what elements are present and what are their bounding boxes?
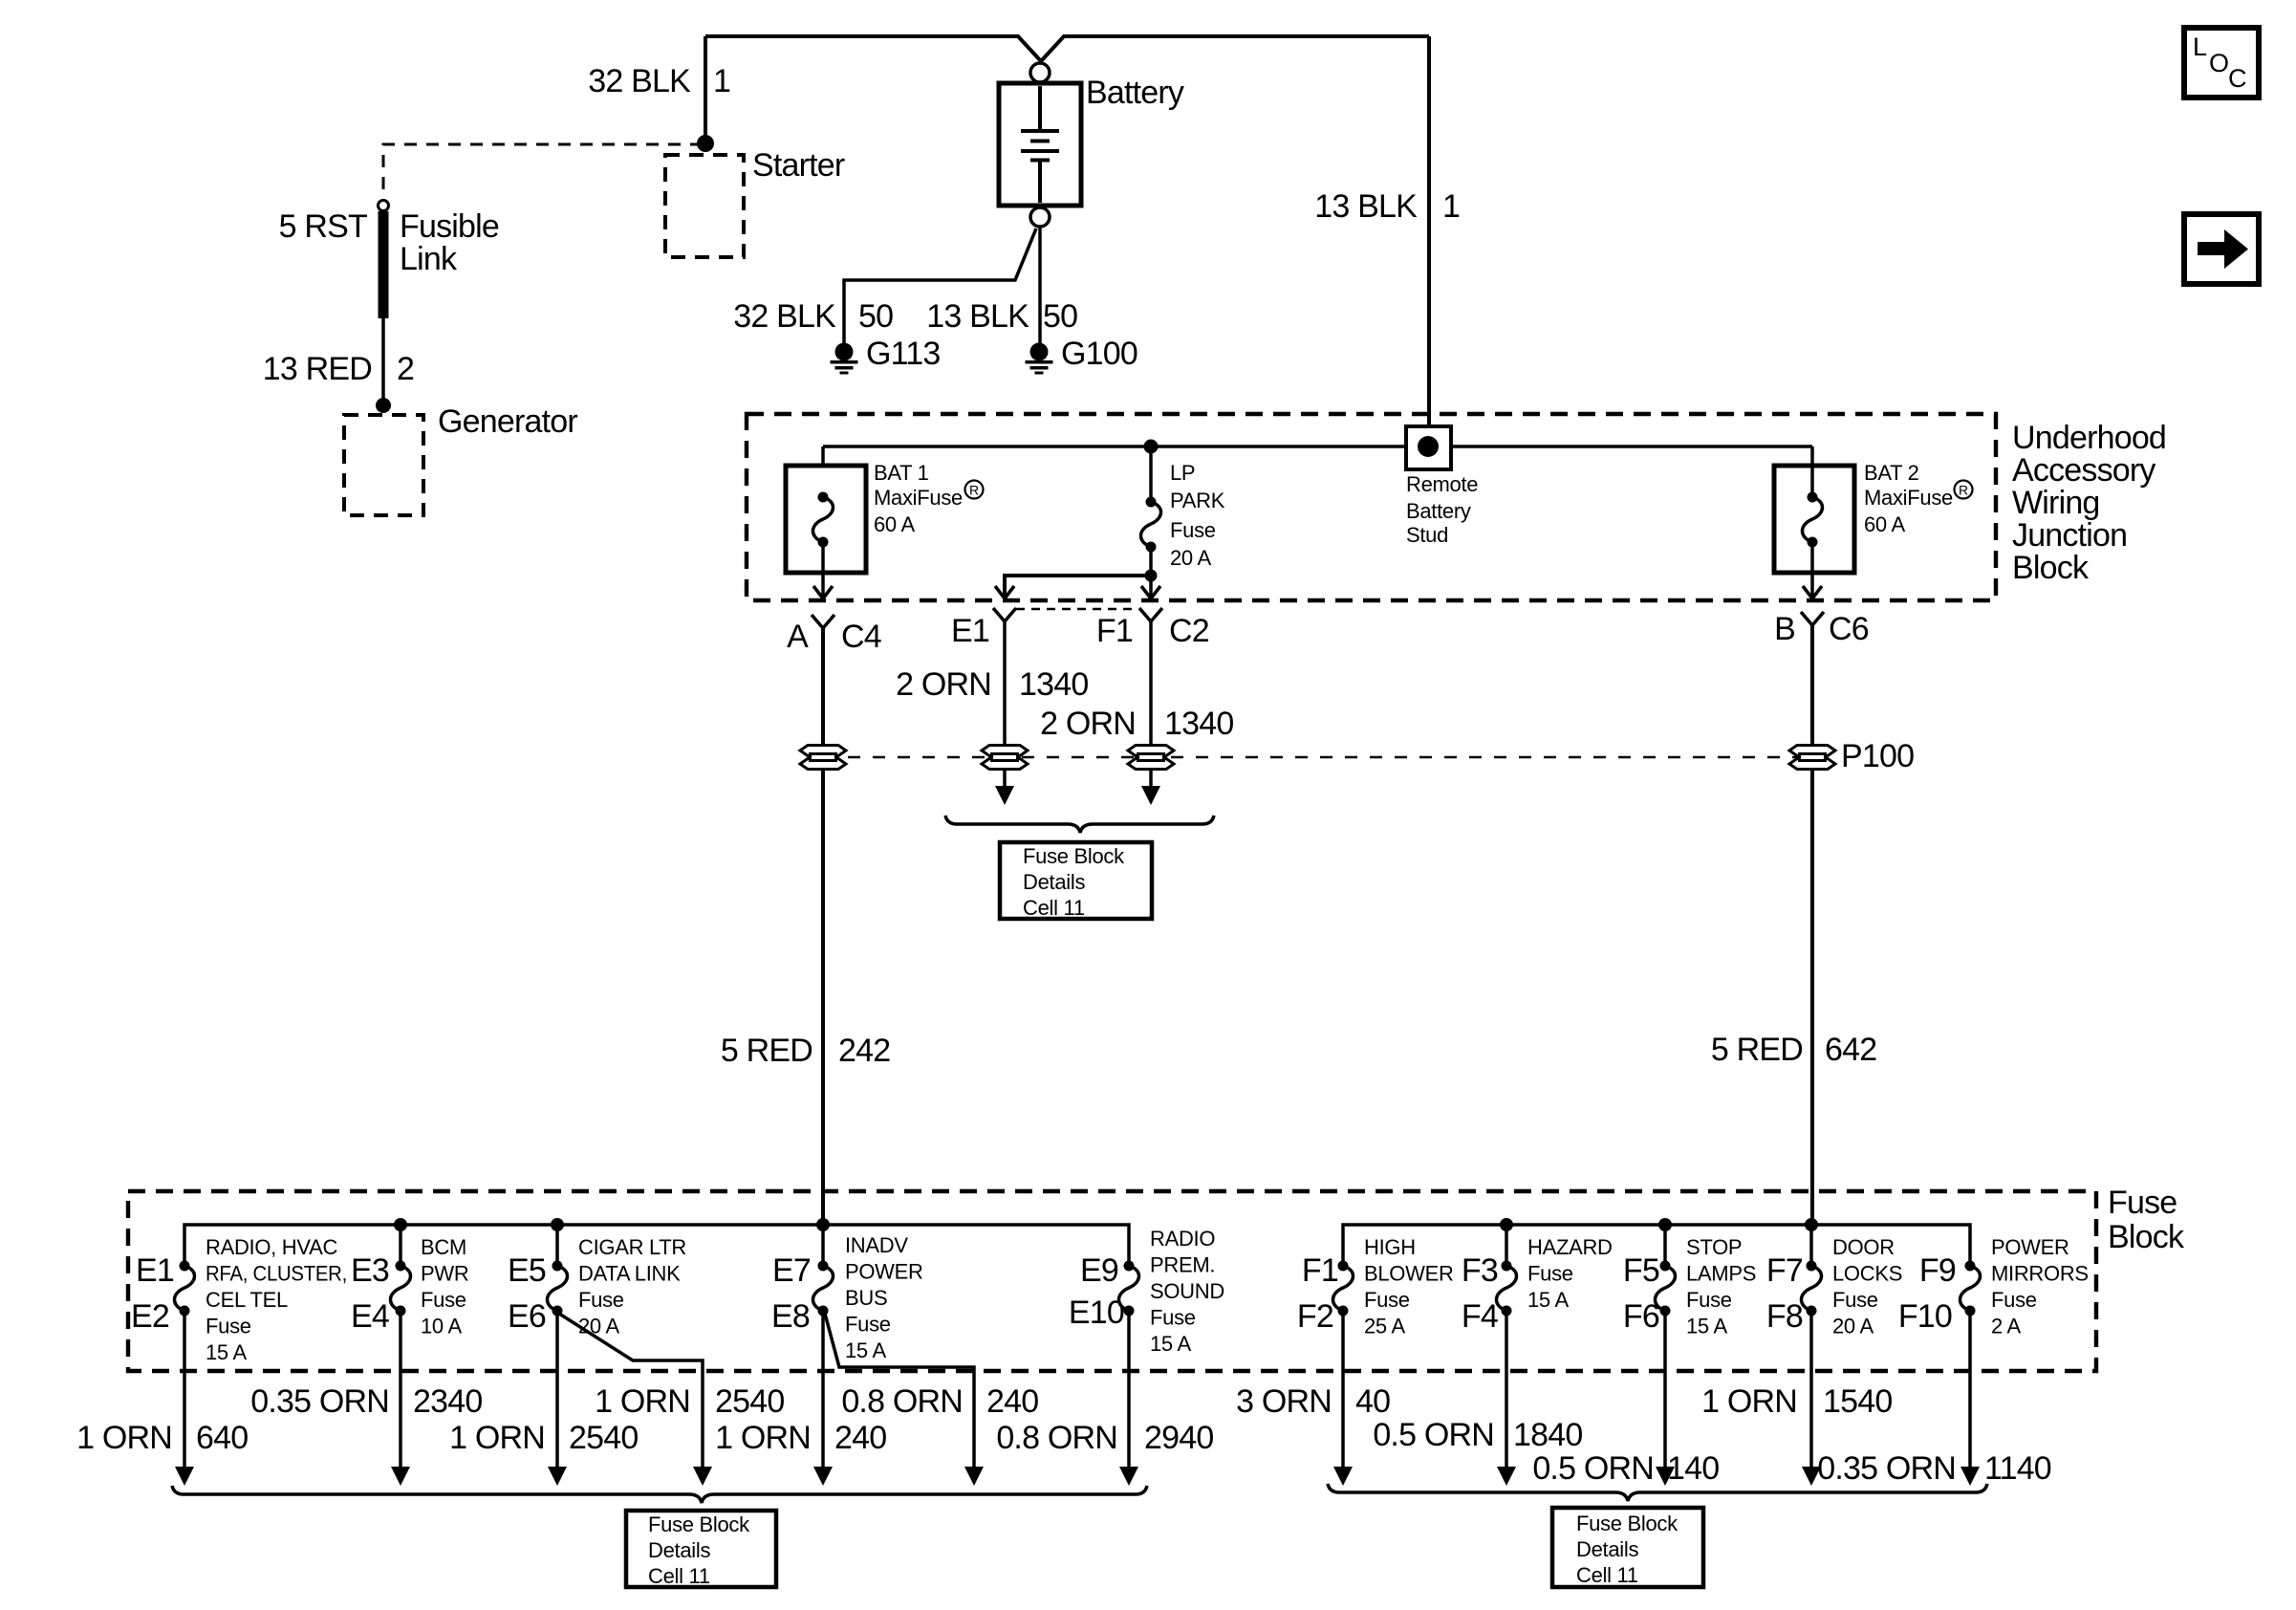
svg-text:Wiring: Wiring — [2012, 485, 2100, 521]
label E1 — [951, 613, 989, 649]
arrow E2 circuit — [175, 1467, 194, 1486]
battery negative terminal — [1030, 207, 1050, 227]
svg-text:Fuse: Fuse — [1832, 1288, 1878, 1312]
svg-text:40: 40 — [1355, 1383, 1390, 1420]
connector E1 — [993, 608, 1016, 621]
svg-text:L: L — [2193, 33, 2207, 61]
fuse E7 E8 INADV element — [821, 1225, 825, 1263]
fuse E3 E4 BCM PWR element — [399, 1225, 402, 1263]
arrow E4 circuit — [391, 1467, 410, 1486]
arrow BAT1 to connector A — [813, 586, 833, 598]
svg-text:140: 140 — [1667, 1450, 1719, 1487]
label LOC — [2193, 33, 2247, 93]
wire E6 output 1 ORN 2540 — [555, 1316, 559, 1468]
svg-text:CEL TEL: CEL TEL — [206, 1288, 288, 1312]
svg-text:Remote: Remote — [1406, 472, 1478, 496]
svg-text:Fuse Block: Fuse Block — [1576, 1512, 1679, 1535]
node remote battery stud dot — [1418, 436, 1439, 457]
arrow branch to E1 connector — [995, 586, 1014, 598]
svg-text:INADV: INADV — [845, 1233, 908, 1257]
wire 5 RED 242 feed — [821, 628, 825, 1225]
wire BAT1 feed stub — [821, 446, 825, 494]
svg-text:15 A: 15 A — [845, 1338, 886, 1362]
svg-text:15 A: 15 A — [1527, 1288, 1569, 1312]
label RADIO HVAC RFA CLUSTER CEL TEL Fuse 15 A — [206, 1235, 347, 1364]
label F3 — [1462, 1252, 1498, 1289]
svg-text:E1: E1 — [951, 613, 989, 649]
svg-text:2340: 2340 — [413, 1383, 482, 1420]
label E2 — [131, 1298, 169, 1335]
callout box Fuse Block Details Cell 11 left — [626, 1511, 776, 1587]
label F1 C2 — [1096, 613, 1209, 649]
svg-text:50: 50 — [858, 298, 893, 335]
label 3 ORN 40 — [1236, 1383, 1390, 1420]
svg-text:Starter: Starter — [752, 147, 845, 184]
svg-text:BAT 2: BAT 2 — [1864, 461, 1919, 485]
svg-text:F1: F1 — [1302, 1252, 1338, 1289]
fuse F3 F4 HAZARD element — [1505, 1225, 1508, 1263]
label 1 ORN 2540 lower — [449, 1420, 638, 1456]
svg-text:Details: Details — [648, 1538, 710, 1562]
wire BAT2 feed stub — [1810, 446, 1814, 494]
wire F6 output 0.5 ORN 140 — [1663, 1316, 1667, 1468]
label Generator — [438, 403, 577, 440]
svg-text:E7: E7 — [772, 1252, 811, 1289]
arrow F10 circuit — [1960, 1467, 1980, 1486]
svg-text:1 ORN: 1 ORN — [1701, 1383, 1797, 1420]
label F10 — [1898, 1298, 1952, 1335]
svg-text:Link: Link — [400, 241, 458, 277]
svg-text:E6: E6 — [508, 1298, 546, 1335]
label F2 — [1297, 1298, 1333, 1335]
connector P100 pass-through B — [1789, 746, 1835, 770]
fuse block dashed box — [128, 1191, 2096, 1371]
svg-text:1 ORN: 1 ORN — [76, 1420, 172, 1456]
svg-text:1: 1 — [1442, 188, 1460, 225]
svg-text:E3: E3 — [351, 1252, 389, 1289]
label B C6 — [1774, 611, 1869, 647]
svg-text:F10: F10 — [1898, 1298, 1952, 1335]
fuse E1 E2 RADIO HVAC element — [175, 1261, 195, 1316]
label E1 — [136, 1252, 174, 1289]
svg-text:DOOR: DOOR — [1832, 1235, 1895, 1259]
svg-text:Fuse: Fuse — [1364, 1288, 1410, 1312]
svg-text:BAT 1: BAT 1 — [874, 461, 929, 485]
svg-text:2 A: 2 A — [1991, 1315, 2022, 1338]
svg-text:RADIO, HVAC: RADIO, HVAC — [206, 1235, 338, 1259]
svg-text:Fuse: Fuse — [1527, 1262, 1573, 1286]
label Fuse Block Details Cell 11 right — [1576, 1512, 1679, 1587]
label F1 — [1302, 1252, 1338, 1289]
fuse F7 F8 DOOR LOCKS element — [1809, 1225, 1813, 1263]
battery positive terminal — [1030, 63, 1050, 82]
ground G113 — [831, 343, 858, 375]
wire 32 BLK vertical to starter — [704, 36, 707, 143]
label 1 ORN 1540 — [1701, 1383, 1892, 1420]
brace fuse block details mid — [945, 816, 1214, 833]
svg-text:Fuse: Fuse — [1150, 1306, 1196, 1330]
svg-text:13 BLK: 13 BLK — [1314, 188, 1418, 225]
svg-text:F9: F9 — [1919, 1252, 1956, 1289]
svg-text:Details: Details — [1576, 1537, 1638, 1561]
svg-text:R: R — [969, 483, 979, 498]
label E4 — [351, 1298, 389, 1335]
svg-text:Junction: Junction — [2012, 517, 2127, 554]
svg-text:A: A — [787, 619, 809, 655]
arrow E8 branch circuit — [964, 1467, 984, 1486]
wire E8 output 1 ORN 240 — [821, 1316, 825, 1468]
fuse E5 E6 CIGAR LTR element — [555, 1225, 559, 1263]
svg-text:15 A: 15 A — [1150, 1332, 1191, 1356]
svg-text:C6: C6 — [1829, 611, 1869, 647]
label BAT 1 MaxiFuse 60 A — [874, 461, 963, 536]
wire E6 branch 1 ORN 2540 — [559, 1314, 703, 1468]
label 13 BLK 50 — [926, 298, 1077, 335]
label F8 — [1766, 1298, 1803, 1335]
label E7 — [772, 1252, 811, 1289]
symbol right arrow — [2198, 229, 2248, 269]
wire dashed harness P100 line — [823, 756, 1812, 759]
wire right fuse bus — [1343, 1225, 1970, 1263]
label F6 — [1623, 1298, 1659, 1335]
wire 13 RED to generator — [381, 318, 385, 400]
svg-text:50: 50 — [1043, 298, 1077, 335]
svg-text:Stud: Stud — [1406, 523, 1448, 547]
generator dashed box — [344, 415, 423, 515]
fusible link element — [379, 211, 389, 318]
fuse LP PARK element — [1141, 497, 1161, 553]
node generator terminal dot — [376, 398, 391, 413]
svg-text:240: 240 — [834, 1420, 886, 1456]
label 0.35 ORN 1140 — [1817, 1450, 2051, 1487]
fuse BAT2 MaxiFuse box — [1774, 466, 1854, 573]
label Battery — [1086, 75, 1184, 111]
wire BAT1 output — [821, 547, 825, 597]
svg-text:60 A: 60 A — [1864, 512, 1905, 536]
label LP PARK Fuse 20 A — [1170, 461, 1225, 570]
svg-text:F5: F5 — [1623, 1252, 1659, 1289]
svg-text:5 RED: 5 RED — [1711, 1032, 1803, 1068]
fuse BAT2 element — [1803, 492, 1823, 548]
svg-text:E8: E8 — [771, 1298, 810, 1335]
svg-text:15 A: 15 A — [206, 1340, 247, 1364]
label 0.8 ORN 240 upper — [841, 1383, 1038, 1420]
wire battery negative branch to G113 — [844, 228, 1036, 343]
svg-text:2 ORN: 2 ORN — [1040, 706, 1136, 742]
battery B1 box — [999, 83, 1081, 206]
label HIGH BLOWER Fuse 25 A — [1364, 1235, 1454, 1338]
label 0.35 ORN 2340 — [250, 1383, 482, 1420]
svg-text:1840: 1840 — [1513, 1417, 1582, 1453]
wire F2 output 3 ORN 40 — [1341, 1316, 1345, 1468]
starter S101 dashed box — [665, 155, 744, 257]
arrow F8 circuit — [1802, 1467, 1821, 1486]
svg-text:2 ORN: 2 ORN — [896, 666, 991, 703]
svg-text:RFA, CLUSTER,: RFA, CLUSTER, — [206, 1262, 347, 1286]
svg-text:C2: C2 — [1169, 613, 1209, 649]
svg-text:1 ORN: 1 ORN — [715, 1420, 811, 1456]
svg-text:20 A: 20 A — [1832, 1315, 1874, 1338]
wire 5 RED 642 feed — [1810, 625, 1814, 1225]
connector A C4 — [812, 615, 834, 628]
svg-text:240: 240 — [986, 1383, 1038, 1420]
node bus dot E7 feed — [816, 1218, 830, 1231]
node LP PARK bus dot — [1144, 440, 1159, 454]
svg-text:E9: E9 — [1080, 1252, 1118, 1289]
wire branch to E1 — [1005, 576, 1151, 597]
svg-text:2: 2 — [397, 351, 414, 387]
wire E8 branch 0.8 ORN 240 — [825, 1314, 974, 1468]
wire LP PARK output — [1149, 550, 1153, 597]
wire E10 output 0.8 ORN 2940 — [1127, 1316, 1131, 1468]
wire F4 output 0.5 ORN 1840 — [1505, 1316, 1508, 1468]
svg-text:1140: 1140 — [1984, 1450, 2051, 1487]
label DOOR LOCKS Fuse 20 A — [1832, 1235, 1902, 1338]
fuse BAT1 MaxiFuse box — [786, 466, 866, 573]
label Remote Battery Stud — [1406, 472, 1478, 547]
label 5 RED 242 — [721, 1033, 890, 1069]
svg-text:1: 1 — [713, 63, 730, 99]
svg-text:F8: F8 — [1766, 1298, 1803, 1335]
svg-text:PWR: PWR — [421, 1262, 468, 1286]
label Fuse Block Details Cell 11 mid — [1023, 844, 1125, 920]
svg-text:MIRRORS: MIRRORS — [1991, 1262, 2089, 1286]
svg-text:E4: E4 — [351, 1298, 389, 1335]
svg-text:20 A: 20 A — [1170, 546, 1211, 570]
svg-text:1 ORN: 1 ORN — [449, 1420, 545, 1456]
svg-text:Cell 11: Cell 11 — [1023, 896, 1085, 920]
label CIGAR LTR DATA LINK Fuse 20 A — [578, 1235, 686, 1338]
ground G100 — [1026, 343, 1053, 375]
svg-text:13 BLK: 13 BLK — [926, 298, 1029, 335]
svg-text:640: 640 — [196, 1420, 248, 1456]
arrow E6 branch circuit — [693, 1467, 712, 1486]
svg-text:Fuse: Fuse — [1170, 518, 1216, 542]
label A C4 — [787, 619, 881, 655]
svg-text:POWER: POWER — [1991, 1235, 2069, 1259]
fuse F1 F2 HIGH BLOWER element — [1333, 1261, 1354, 1316]
label F5 — [1623, 1252, 1659, 1289]
svg-text:13 RED: 13 RED — [263, 351, 372, 387]
label 2 ORN 1340 E1 — [896, 666, 1088, 703]
label E10 — [1069, 1295, 1124, 1331]
fuse F9 F10 POWER MIRRORS element — [1960, 1261, 1981, 1316]
connector P100 pass-through E1 — [982, 746, 1028, 770]
label E9 — [1080, 1252, 1118, 1289]
svg-text:1340: 1340 — [1164, 706, 1233, 742]
brace right fuse block — [1328, 1484, 1987, 1501]
label E8 — [771, 1298, 810, 1335]
svg-text:1340: 1340 — [1019, 666, 1088, 703]
wire 13 BLK to remote battery stud — [1427, 36, 1431, 446]
wire 2 ORN 1340 E1 — [1003, 621, 1007, 790]
svg-text:Cell 11: Cell 11 — [648, 1564, 710, 1588]
label POWER MIRRORS Fuse 2 A — [1991, 1235, 2089, 1338]
svg-text:Block: Block — [2108, 1219, 2185, 1255]
label BCM PWR Fuse 10 A — [421, 1235, 468, 1338]
fuse E9 E10 RADIO PREM element — [1119, 1261, 1139, 1316]
svg-text:15 A: 15 A — [1686, 1315, 1727, 1338]
svg-text:DATA LINK: DATA LINK — [578, 1262, 681, 1286]
svg-text:Fuse: Fuse — [578, 1288, 624, 1312]
svg-text:PARK: PARK — [1170, 489, 1225, 512]
svg-text:Block: Block — [2012, 550, 2090, 586]
fusible link terminal circle — [379, 201, 389, 211]
svg-text:Fuse: Fuse — [421, 1288, 466, 1312]
svg-text:F4: F4 — [1462, 1298, 1498, 1335]
svg-text:STOP: STOP — [1686, 1235, 1742, 1259]
wire junction block internal bus — [823, 445, 1812, 448]
label Fuse Block — [2108, 1185, 2185, 1255]
dashed connector face line E1-F1 — [1016, 608, 1138, 611]
arrow BAT2 to connector B — [1803, 586, 1822, 598]
svg-text:242: 242 — [838, 1033, 890, 1069]
label E3 — [351, 1252, 389, 1289]
svg-text:20 A: 20 A — [578, 1315, 619, 1338]
label 5 RED 642 — [1711, 1032, 1876, 1068]
svg-text:RADIO: RADIO — [1150, 1227, 1215, 1251]
svg-text:Fuse: Fuse — [206, 1315, 251, 1338]
label G113 — [866, 336, 940, 372]
svg-text:E5: E5 — [508, 1252, 546, 1289]
fuse F5 F6 STOP LAMPS element — [1663, 1225, 1667, 1263]
arrow LP PARK to C2 connector — [1141, 586, 1160, 598]
wire F8 output 1 ORN 1540 — [1809, 1316, 1813, 1468]
svg-text:Battery: Battery — [1086, 75, 1184, 111]
svg-text:O: O — [2209, 49, 2229, 77]
arrow F1 circuit continues — [1141, 786, 1160, 805]
symbol arrow legend box — [2184, 214, 2259, 284]
svg-text:5 RED: 5 RED — [721, 1033, 812, 1069]
label 32 BLK 1 — [588, 63, 730, 99]
svg-text:25 A: 25 A — [1364, 1315, 1405, 1338]
svg-text:F2: F2 — [1297, 1298, 1333, 1335]
svg-text:BUS: BUS — [845, 1286, 887, 1310]
svg-text:Fuse: Fuse — [845, 1313, 891, 1337]
brace left fuse block — [172, 1486, 1147, 1503]
svg-text:32 BLK: 32 BLK — [588, 63, 691, 99]
label F4 — [1462, 1298, 1498, 1335]
wire battery negative to G100 — [1038, 227, 1042, 343]
svg-text:5 RST: 5 RST — [279, 208, 367, 245]
label HAZARD Fuse 15 A — [1527, 1235, 1613, 1312]
svg-text:P100: P100 — [1841, 738, 1914, 774]
svg-text:Details: Details — [1023, 870, 1085, 894]
label Fuse Block Details Cell 11 left — [648, 1512, 750, 1588]
svg-text:Accessory: Accessory — [2012, 452, 2155, 489]
label E6 — [508, 1298, 546, 1335]
svg-text:SOUND: SOUND — [1150, 1279, 1224, 1303]
wire dashed to fusible link — [383, 144, 703, 200]
arrow E10 circuit — [1119, 1467, 1138, 1486]
node bus dot E3 — [394, 1218, 407, 1231]
svg-text:E2: E2 — [131, 1298, 169, 1335]
svg-text:E1: E1 — [136, 1252, 174, 1289]
svg-text:LAMPS: LAMPS — [1686, 1262, 1756, 1286]
label Fusible Link — [400, 208, 499, 277]
label 13 RED 2 — [263, 351, 414, 387]
node bus dot F3 — [1500, 1218, 1513, 1231]
svg-text:E10: E10 — [1069, 1295, 1124, 1331]
svg-text:32 BLK: 32 BLK — [733, 298, 836, 335]
label 13 BLK 1 — [1314, 188, 1460, 225]
svg-text:CIGAR LTR: CIGAR LTR — [578, 1235, 686, 1259]
svg-text:0.35 ORN: 0.35 ORN — [250, 1383, 389, 1420]
svg-text:F1: F1 — [1096, 613, 1133, 649]
svg-text:POWER: POWER — [845, 1260, 923, 1284]
svg-text:0.5 ORN: 0.5 ORN — [1532, 1450, 1654, 1487]
wire E4 output 0.35 ORN 2340 — [399, 1316, 402, 1468]
svg-text:Generator: Generator — [438, 403, 577, 440]
svg-text:642: 642 — [1825, 1032, 1876, 1068]
svg-text:LP: LP — [1170, 461, 1195, 485]
remote battery stud box — [1406, 426, 1451, 469]
svg-text:3 ORN: 3 ORN — [1236, 1383, 1332, 1420]
svg-text:Cell 11: Cell 11 — [1576, 1563, 1638, 1587]
callout box Fuse Block Details Cell 11 right — [1552, 1508, 1703, 1587]
svg-text:Fuse: Fuse — [1686, 1288, 1732, 1312]
symbol registered trademark BAT1 — [965, 481, 984, 499]
svg-text:10 A: 10 A — [421, 1315, 462, 1338]
svg-text:G100: G100 — [1061, 336, 1137, 372]
label 5 RST — [279, 208, 367, 245]
callout box Fuse Block Details Cell 11 mid — [1000, 842, 1152, 919]
svg-text:Battery: Battery — [1406, 499, 1471, 523]
arrow E6 circuit — [548, 1467, 567, 1486]
wire BAT2 output — [1810, 547, 1814, 597]
label 32 BLK 50 — [733, 298, 893, 335]
label G100 — [1061, 336, 1137, 372]
underhood accessory wiring junction block dashed box — [747, 414, 1996, 600]
svg-text:0.8 ORN: 0.8 ORN — [841, 1383, 963, 1420]
label Starter — [752, 147, 845, 184]
svg-text:B: B — [1774, 611, 1795, 647]
arrow F6 circuit — [1656, 1467, 1675, 1486]
label E5 — [508, 1252, 546, 1289]
svg-text:F6: F6 — [1623, 1298, 1659, 1335]
svg-text:HAZARD: HAZARD — [1527, 1235, 1613, 1259]
svg-text:F3: F3 — [1462, 1252, 1498, 1289]
node bus dot F5 — [1658, 1218, 1672, 1231]
symbol LOC legend box — [2184, 28, 2259, 98]
label RADIO PREM SOUND Fuse 15 A — [1150, 1227, 1224, 1356]
svg-text:G113: G113 — [866, 336, 940, 372]
svg-text:MaxiFuse: MaxiFuse — [1864, 486, 1953, 510]
svg-text:Fuse: Fuse — [2108, 1185, 2177, 1221]
svg-text:2540: 2540 — [715, 1383, 784, 1420]
connector B C6 — [1801, 612, 1824, 625]
label INADV POWER BUS Fuse 15 A — [845, 1233, 923, 1362]
label 0.8 ORN 2940 lower — [996, 1420, 1213, 1456]
svg-text:1540: 1540 — [1823, 1383, 1892, 1420]
svg-text:Underhood: Underhood — [2012, 420, 2166, 456]
svg-text:MaxiFuse: MaxiFuse — [874, 486, 963, 510]
svg-text:0.8 ORN: 0.8 ORN — [996, 1420, 1117, 1456]
svg-text:R: R — [1959, 483, 1968, 498]
svg-text:C: C — [2228, 64, 2247, 93]
svg-text:Fuse Block: Fuse Block — [648, 1512, 750, 1536]
wire 2 ORN 1340 F1 — [1149, 621, 1153, 790]
label 1 ORN 2540 upper — [595, 1383, 784, 1420]
wire F10 output 0.35 ORN 1140 — [1968, 1316, 1972, 1468]
svg-text:0.35 ORN: 0.35 ORN — [1817, 1450, 1956, 1487]
battery cell symbol — [1021, 86, 1059, 203]
svg-text:BLOWER: BLOWER — [1364, 1262, 1454, 1286]
connector P100 pass-through F1 — [1128, 746, 1174, 770]
svg-text:60 A: 60 A — [874, 512, 915, 536]
wire LP PARK fuse feed — [1149, 446, 1153, 499]
arrow E1 circuit continues — [995, 786, 1014, 805]
